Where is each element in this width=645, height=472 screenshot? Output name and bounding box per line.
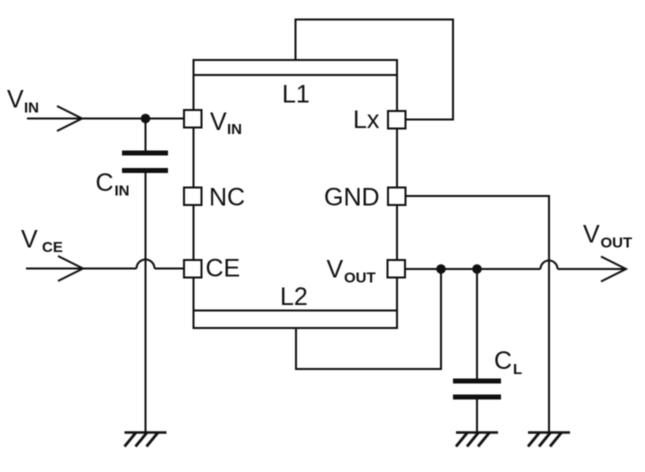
svg-text:CE: CE bbox=[206, 255, 241, 283]
svg-text:V: V bbox=[583, 221, 600, 249]
svg-text:IN: IN bbox=[227, 121, 242, 138]
svg-text:IN: IN bbox=[115, 183, 130, 200]
ground symbol under CIN bbox=[125, 433, 167, 447]
svg-text:OUT: OUT bbox=[601, 235, 633, 252]
svg-text:L: L bbox=[513, 361, 522, 378]
wire GND pin to right vertical bbox=[406, 196, 549, 433]
node junction dot VOUT/CL bbox=[472, 264, 482, 274]
pin VIN square bbox=[184, 110, 202, 128]
wire VOUT pin to hop bbox=[406, 268, 541, 270]
inductor L2 bbox=[194, 310, 398, 312]
IC body U1 bbox=[194, 60, 398, 328]
svg-text:GND: GND bbox=[324, 184, 380, 212]
inductor L1 bbox=[194, 74, 398, 76]
svg-text:C: C bbox=[494, 347, 512, 375]
svg-text:L2: L2 bbox=[280, 283, 308, 311]
capacitor CIN bbox=[122, 151, 168, 174]
wire VCE to CE pin bbox=[155, 268, 185, 270]
wire CL to ground bbox=[476, 400, 478, 433]
wire crossover hop on VCE wire bbox=[137, 260, 155, 269]
capacitor CL bbox=[453, 379, 501, 400]
svg-text:CE: CE bbox=[42, 239, 63, 256]
pin Lx square bbox=[388, 111, 406, 129]
pin VOUT square bbox=[388, 260, 406, 278]
svg-text:V: V bbox=[210, 108, 227, 136]
wire CL branch bbox=[476, 269, 478, 379]
wire VCE input left of hop bbox=[26, 268, 137, 270]
pin CE square bbox=[184, 260, 202, 278]
wire CIN to ground bbox=[145, 173, 147, 433]
node junction dot VOUT/L2 bbox=[436, 264, 446, 274]
svg-text:V: V bbox=[7, 86, 24, 114]
wire top loop from L1 to Lx bbox=[296, 20, 454, 120]
wire VIN input bbox=[27, 118, 184, 120]
ground symbol under CL bbox=[456, 433, 498, 447]
ground symbol under GND wire bbox=[528, 433, 570, 447]
svg-text:L1: L1 bbox=[282, 81, 310, 109]
svg-text:IN: IN bbox=[24, 100, 39, 117]
arrowhead VCE input bbox=[58, 256, 83, 281]
arrowhead VOUT output bbox=[601, 257, 626, 282]
svg-text:C: C bbox=[96, 169, 114, 197]
wire crossover hop on VOUT wire bbox=[541, 261, 558, 270]
svg-text:NC: NC bbox=[209, 184, 245, 212]
svg-text:V: V bbox=[21, 226, 38, 254]
svg-text:V: V bbox=[327, 256, 344, 284]
svg-text:OUT: OUT bbox=[344, 270, 376, 287]
wire CIN branch vertical bbox=[145, 119, 147, 151]
pin NC square bbox=[184, 188, 202, 206]
wire VOUT to arrow bbox=[558, 268, 627, 270]
pin GND square bbox=[388, 188, 406, 206]
arrowhead VIN input bbox=[57, 106, 82, 131]
node junction dot VIN/CIN bbox=[141, 114, 151, 124]
wire L2 feedback to VOUT node bbox=[296, 269, 441, 369]
svg-text:Lx: Lx bbox=[353, 106, 380, 134]
